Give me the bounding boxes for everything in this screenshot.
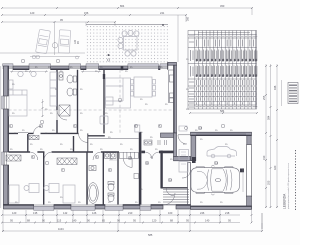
svg-text:LEGENDA: LEGENDA xyxy=(283,193,287,209)
svg-text:142: 142 xyxy=(63,211,68,215)
svg-text:450: 450 xyxy=(220,4,225,8)
svg-text:120: 120 xyxy=(152,219,157,223)
svg-text:946: 946 xyxy=(273,85,277,90)
svg-text:420: 420 xyxy=(273,165,277,170)
svg-text:584: 584 xyxy=(267,115,271,120)
svg-text:804: 804 xyxy=(120,4,125,8)
svg-text:255: 255 xyxy=(262,95,266,100)
svg-text:210: 210 xyxy=(128,211,133,215)
svg-text:120: 120 xyxy=(30,11,35,15)
svg-text:260: 260 xyxy=(187,16,190,21)
svg-text:120: 120 xyxy=(12,211,17,215)
svg-text:585: 585 xyxy=(148,233,153,237)
svg-text:pianta piano terra scala 1:100: pianta piano terra scala 1:100 quote esp… xyxy=(287,163,290,209)
svg-text:255: 255 xyxy=(267,180,271,185)
svg-text:115: 115 xyxy=(57,219,62,223)
svg-text:584: 584 xyxy=(220,109,225,113)
svg-text:246: 246 xyxy=(200,211,205,215)
svg-text:310: 310 xyxy=(262,155,266,160)
svg-text:1104: 1104 xyxy=(58,227,64,231)
svg-text:135: 135 xyxy=(33,211,38,215)
svg-text:218: 218 xyxy=(225,211,230,215)
svg-text:241: 241 xyxy=(160,11,165,15)
svg-text:160: 160 xyxy=(168,211,173,215)
svg-text:140: 140 xyxy=(72,219,77,223)
svg-text:140: 140 xyxy=(205,219,210,223)
svg-text:126: 126 xyxy=(92,211,97,215)
svg-text:156: 156 xyxy=(84,11,89,15)
